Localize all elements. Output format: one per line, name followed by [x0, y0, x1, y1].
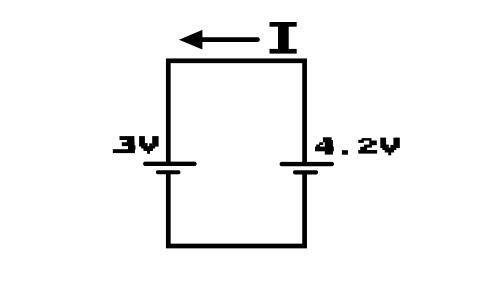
wire gap for left battery	[160, 162, 177, 174]
battery B1 short plate (-)	[158, 170, 179, 174]
battery B2 long plate (+)	[282, 162, 332, 166]
wire loop of circuit	[168, 61, 304, 246]
label 4.2V : digit 4	[315, 137, 334, 154]
label I	[270, 22, 297, 54]
label 3V : digit 3	[113, 136, 136, 153]
label 3V : letter V	[139, 136, 158, 154]
current arrow shaft	[202, 37, 258, 42]
battery B1 long plate (+)	[145, 162, 194, 166]
label 4.2V : digit 2	[358, 138, 377, 154]
wire gap for right battery	[296, 162, 313, 174]
label 4.2V : letter V	[380, 138, 400, 156]
current arrow head	[179, 30, 203, 50]
battery B2 short plate (-)	[295, 170, 316, 174]
label 4.2V : period	[342, 150, 348, 155]
